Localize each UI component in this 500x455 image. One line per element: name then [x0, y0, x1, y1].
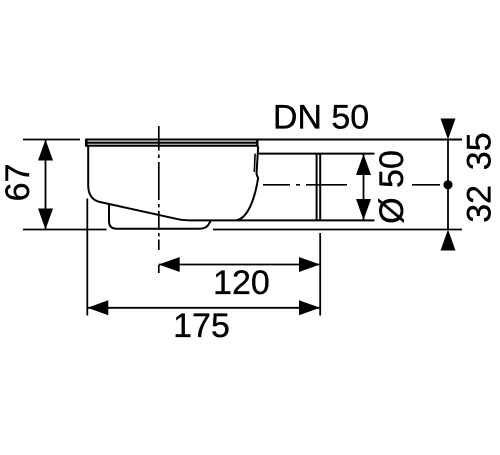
svg-text:35: 35: [460, 132, 498, 170]
svg-text:32: 32: [460, 185, 498, 223]
svg-text:Ø 50: Ø 50: [373, 150, 411, 224]
svg-text:DN 50: DN 50: [273, 99, 369, 137]
svg-text:120: 120: [213, 264, 270, 302]
svg-text:67: 67: [0, 164, 37, 202]
svg-text:175: 175: [173, 307, 230, 345]
